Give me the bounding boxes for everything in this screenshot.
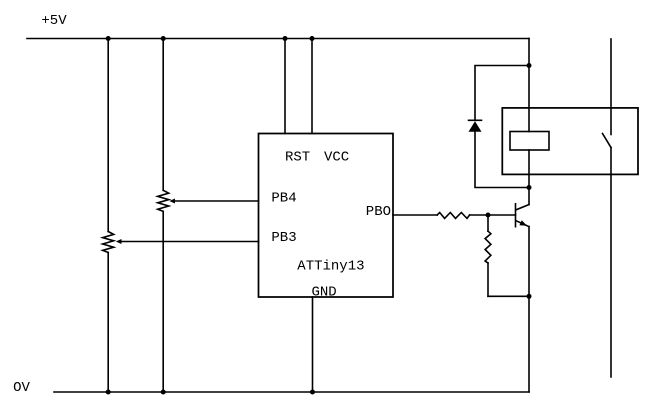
wire resistor to base node (470, 214, 516, 216)
junction base node (486, 213, 491, 218)
op IC U1 ATTiny13 box (259, 134, 394, 298)
junction diode bottom collector (527, 185, 532, 190)
switch SW1 lower lead (610, 148, 612, 378)
switch SW1 blade (603, 134, 612, 148)
wire diode top link (475, 66, 529, 121)
transistor Q1 emitter diagonal (516, 221, 529, 227)
relay RL1 box (502, 108, 638, 174)
junction top rail pot2 (161, 36, 166, 41)
svg-text:ATTiny13: ATTiny13 (297, 258, 364, 274)
wire pot1 wiper to PB3 (121, 241, 259, 243)
svg-text:RST: RST (285, 150, 310, 166)
wire VCC pin (311, 39, 313, 134)
transistor Q1 collector diagonal (516, 205, 529, 210)
potentiometer VR2 element (158, 190, 169, 211)
potentiometer VR1 wiper arrowhead (116, 239, 122, 244)
svg-text:OV: OV (13, 380, 30, 396)
junction emitter node (527, 294, 532, 299)
svg-text:PBO: PBO (366, 204, 391, 220)
wire emitter down (528, 227, 530, 392)
junction bottom rail GND (310, 390, 315, 395)
potentiometer VR1 element (103, 232, 114, 253)
svg-text:GND: GND (312, 285, 337, 301)
wire relay coil feed from rail (528, 39, 530, 132)
wire collector up (528, 150, 530, 205)
junction bottom rail pot1 (106, 390, 111, 395)
wire diode bottom link (475, 132, 529, 188)
svg-text:+5V: +5V (41, 13, 67, 29)
wire pot1 upper (107, 39, 109, 232)
junction top rail pot1 (106, 36, 111, 41)
wire GND pin (312, 297, 314, 392)
junction top rail VCC (310, 36, 315, 41)
transistor Q1 base bar (515, 204, 517, 227)
junction bottom rail pot2 (161, 390, 166, 395)
junction top rail RST (283, 36, 288, 41)
wire pot2 lower (162, 211, 164, 392)
wire pot1 lower (107, 253, 109, 393)
diode D1 cathode bar (469, 119, 482, 121)
wire PB0 to resistor (393, 214, 437, 216)
wire 0V bottom rail (54, 391, 529, 393)
relay RL1 coil (510, 132, 549, 151)
transistor Q1 emitter arrowhead (519, 220, 527, 225)
wire RST pin (284, 39, 286, 134)
svg-text:PB4: PB4 (271, 191, 296, 207)
resistor R2 pulldown (485, 231, 491, 263)
switch SW1 upper lead (610, 39, 612, 135)
resistor R1 base resistor (437, 213, 469, 219)
wire base node down (487, 215, 489, 231)
wire emitter bottom link (488, 295, 529, 297)
wire pot2 upper (162, 39, 164, 191)
wire pot2 wiper to PB4 (174, 200, 259, 202)
potentiometer VR2 wiper arrowhead (169, 199, 175, 204)
wire pulldown lower (487, 263, 489, 296)
wire +5V top rail (27, 38, 529, 40)
svg-text:VCC: VCC (324, 150, 349, 166)
junction diode top (527, 63, 532, 68)
diode D1 triangle (469, 121, 482, 131)
svg-text:PB3: PB3 (271, 230, 296, 246)
